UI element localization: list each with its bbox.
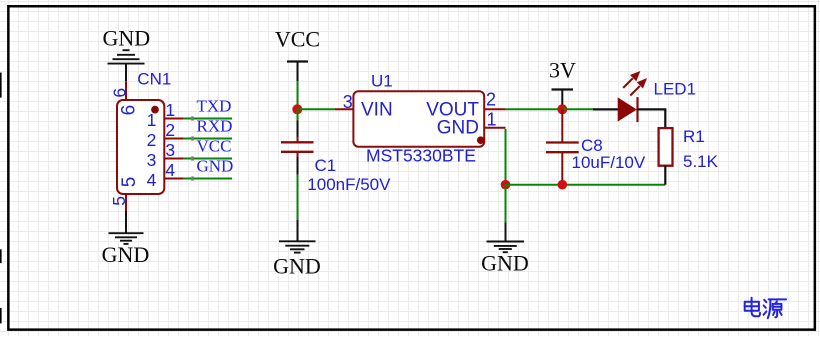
LED cathode bar [636,97,638,122]
wire: CN1 pin5 to ground [125,211,127,233]
svg-text:100nF/50V: 100nF/50V [307,175,391,194]
wire: top GND to CN1 pin6 [125,64,127,82]
CN1 pin 1 lead [164,118,183,120]
connector CN1 body [117,100,164,194]
wire C1 to ground [297,175,299,221]
U1 pin 1 lead [485,127,506,129]
svg-text:GND: GND [481,250,529,275]
sheet title text (electric source) [745,298,786,318]
svg-text:1: 1 [147,110,157,130]
svg-text:R1: R1 [683,127,705,146]
wire junction to LED [562,108,593,110]
svg-text:GND: GND [437,118,479,139]
resistor R1 body [659,128,673,166]
svg-text:5: 5 [109,196,129,206]
C8 top lead [561,109,563,141]
capacitor C1 [281,121,314,175]
svg-text:5.1K: 5.1K [683,152,719,171]
svg-text:GND: GND [197,157,234,176]
svg-text:4: 4 [147,170,157,190]
LED cathode wire [638,108,667,110]
svg-text:RXD: RXD [197,117,233,136]
CN1 pin 4 lead [164,178,183,180]
svg-text:2: 2 [165,120,175,140]
R1 bottom lead [664,166,666,185]
U1 pin 2 lead [485,108,505,110]
wire VOUT to 3V junction [505,108,562,110]
junction node GND rail left [501,180,511,190]
wire VCC rail down [297,81,299,109]
svg-text:1: 1 [165,100,175,120]
connector CN1 pin 5 [125,194,127,211]
U1 pin 3 lead [335,108,353,110]
svg-text:3: 3 [165,140,175,160]
svg-text:VCC: VCC [275,27,320,52]
svg-text:3: 3 [147,150,157,170]
svg-text:CN1: CN1 [137,70,171,89]
svg-text:6: 6 [110,88,130,98]
svg-text:10uF/10V: 10uF/10V [572,153,646,172]
C8 bottom lead [561,152,563,185]
wire junction down to ground [505,185,507,223]
junction node VCC/C1/U1 [292,104,302,114]
U1 pin1 marker dot [477,136,485,144]
capacitor C8 [546,143,579,153]
voltage regulator U1 body [353,91,484,147]
svg-text:U1: U1 [371,71,393,90]
connector CN1 pin 6 [125,81,127,100]
svg-text:5: 5 [119,177,140,188]
svg-text:1: 1 [487,109,497,129]
CN1 pin 3 lead [164,158,183,160]
wire net GND [183,178,232,180]
svg-text:6: 6 [119,105,140,116]
wire net VCC [183,158,232,160]
ground symbol (below C1) [279,241,316,252]
svg-text:C1: C1 [315,156,337,175]
svg-text:3: 3 [343,92,353,112]
junction node C8/GND rail [558,180,568,190]
junction node 3V/C8 [557,104,567,114]
CN1 pin 2 lead [164,138,183,140]
svg-text:3V: 3V [549,58,576,83]
svg-text:MST5330BTE: MST5330BTE [366,146,476,166]
LED LED1 triangle [618,97,637,121]
wire U1 GND down to rail [505,129,507,185]
svg-text:VIN: VIN [361,100,393,121]
wire net TXD [183,118,232,120]
svg-text:4: 4 [165,160,175,180]
svg-text:LED1: LED1 [654,79,697,98]
ground symbol (below CN1) [109,233,144,244]
LED arrows [623,73,645,96]
net label anchors [191,116,194,120]
wire junction down to C1 [297,109,299,120]
ground symbol (top, inverted) [108,50,145,63]
ground symbol (right) [487,242,525,253]
svg-text:TXD: TXD [197,97,232,116]
svg-text:GND: GND [102,26,150,51]
svg-text:VCC: VCC [197,137,232,156]
svg-text:2: 2 [486,90,496,110]
svg-text:GND: GND [102,242,150,267]
wire net RXD [183,138,232,140]
svg-text:GND: GND [273,254,321,279]
CN1 pin 1 marker dot [151,106,159,114]
wire GND bottom rail [506,184,666,186]
svg-text:2: 2 [147,130,157,150]
wire junction to U1 pin3 [298,108,335,110]
LED1 anode wire [593,108,619,110]
